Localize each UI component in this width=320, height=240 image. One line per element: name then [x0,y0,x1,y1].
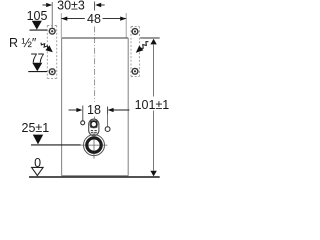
svg-text:R ½″: R ½″ [9,36,37,50]
svg-text:101±1: 101±1 [135,98,170,112]
svg-text:30±3: 30±3 [57,0,85,12]
svg-text:105: 105 [27,9,48,23]
svg-text:25±1: 25±1 [22,121,50,135]
svg-text:18: 18 [87,103,101,117]
svg-text:48: 48 [87,12,101,26]
